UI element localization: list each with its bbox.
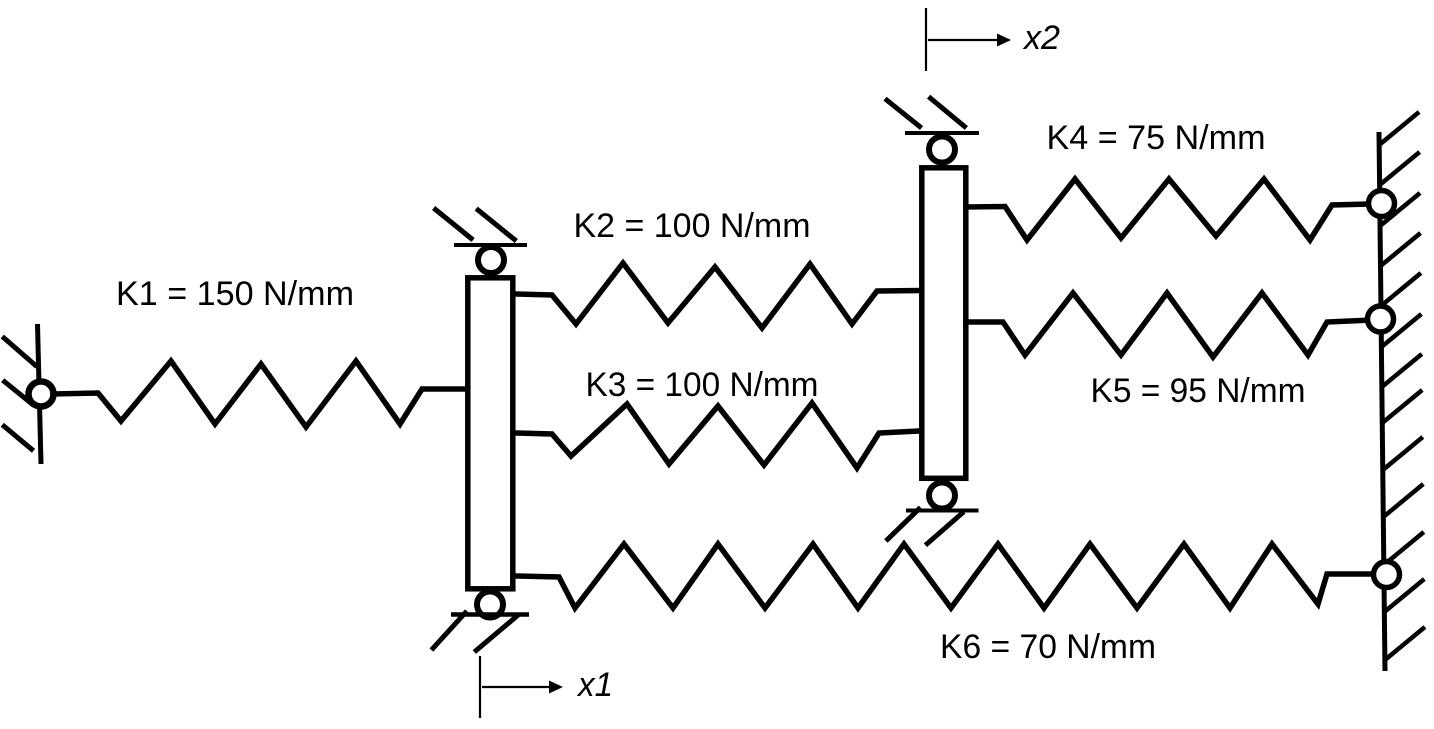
- right wall hatch 9: [1383, 437, 1423, 470]
- bar2 bottom support hatch right: [925, 512, 963, 546]
- bar1 bottom support line: [451, 612, 529, 617]
- bar1 body (mass 1): [468, 278, 513, 589]
- left wall hatch 1: [2, 337, 37, 367]
- bar2 bottom roller: [929, 483, 955, 509]
- spring K6: [516, 544, 1377, 608]
- bar2 top support hatch right: [929, 97, 967, 128]
- bar1 top roller: [478, 247, 504, 273]
- bar2 body (mass 2): [922, 168, 966, 479]
- spring K4: [966, 179, 1372, 240]
- x1 arrowhead: [549, 681, 563, 694]
- svg-text:x1: x1: [576, 666, 613, 704]
- svg-text:K5 = 95 N/mm: K5 = 95 N/mm: [1091, 372, 1306, 410]
- wall pin for K6: [1374, 562, 1400, 588]
- x1 reference line: [479, 656, 481, 718]
- svg-text:K2 = 100 N/mm: K2 = 100 N/mm: [574, 207, 811, 245]
- bar1 bottom support hatch right: [474, 615, 518, 652]
- right wall hatch 12: [1384, 579, 1424, 612]
- right wall hatch 13: [1385, 627, 1425, 660]
- right wall hatch 1: [1379, 112, 1419, 145]
- bar2 top roller: [929, 137, 955, 163]
- bar1 top support hatch right: [476, 209, 516, 241]
- left wall hatch 2: [3, 380, 34, 405]
- x1 arrow shaft: [482, 686, 549, 688]
- right wall hatch 7: [1382, 354, 1422, 387]
- bar2 top support line: [905, 131, 979, 135]
- bar1 top support hatch left: [434, 208, 474, 240]
- bar1 bottom support hatch left: [431, 611, 467, 650]
- spring K2: [516, 263, 920, 328]
- bar1 top support line: [454, 243, 527, 247]
- right wall hatch 10: [1383, 484, 1423, 517]
- bar2 top support hatch left: [885, 99, 922, 128]
- left wall hatch 3: [2, 425, 33, 451]
- wall pin for K4: [1369, 191, 1395, 217]
- right wall hatch 5: [1381, 273, 1421, 306]
- wall pin for K5: [1368, 306, 1394, 332]
- bar2 bottom support line: [906, 509, 979, 513]
- spring K1: [53, 361, 466, 427]
- right wall hatch 2: [1380, 152, 1420, 185]
- left anchor pin: [29, 382, 54, 407]
- svg-text:K1 = 150 N/mm: K1 = 150 N/mm: [116, 275, 354, 313]
- right wall hatch 11: [1384, 532, 1424, 565]
- x2 reference line: [925, 8, 927, 71]
- bar2 bottom support hatch left: [886, 507, 921, 541]
- spring K5: [966, 293, 1372, 357]
- svg-text:K4 = 75 N/mm: K4 = 75 N/mm: [1047, 119, 1266, 157]
- svg-text:K6 = 70 N/mm: K6 = 70 N/mm: [940, 628, 1156, 666]
- svg-text:x2: x2: [1022, 19, 1060, 57]
- spring K3: [516, 403, 920, 468]
- right wall hatch 6: [1381, 314, 1421, 347]
- x2 arrowhead: [997, 34, 1011, 47]
- right wall hatch 4: [1381, 233, 1421, 266]
- right wall hatch 8: [1382, 390, 1422, 423]
- x2 arrow shaft: [928, 39, 997, 41]
- left wall line: [38, 324, 42, 464]
- right wall line: [1379, 132, 1385, 671]
- right wall hatch 3: [1380, 193, 1420, 226]
- bar1 bottom roller: [477, 592, 503, 618]
- svg-text:K3 = 100 N/mm: K3 = 100 N/mm: [586, 366, 819, 404]
